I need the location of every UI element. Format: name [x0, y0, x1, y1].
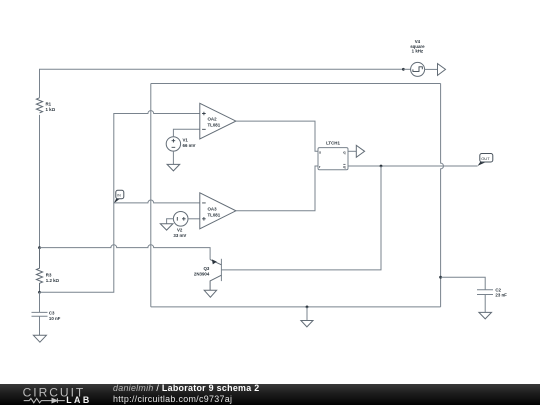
svg-text:OA3: OA3 [208, 207, 218, 212]
ground under V1 [167, 164, 180, 171]
label V2 33 mV [173, 228, 186, 238]
ground below box bottom [301, 321, 313, 327]
svg-text:V1: V1 [183, 137, 189, 142]
voltage source V1 [166, 137, 180, 151]
svg-text:23 nF: 23 nF [495, 293, 507, 298]
svg-text:q: q [343, 150, 346, 154]
voltage source V4 [411, 62, 425, 76]
wire OA2 output to latch S pin [236, 121, 318, 151]
svg-text:1.2 kΩ: 1.2 kΩ [46, 278, 60, 283]
svg-text:66 mV: 66 mV [183, 143, 196, 148]
resistor R3 [36, 248, 42, 293]
transistor Q3 [210, 259, 221, 291]
wire Qbar junction down to Q3 base [221, 166, 381, 270]
wire latch Q to ground stub [348, 150, 356, 152]
svg-text:LAB: LAB [66, 395, 92, 405]
wire V4 left stub [403, 68, 410, 70]
footer text [113, 383, 259, 393]
node A junction [38, 246, 41, 249]
wire OA3 output to latch R pin [236, 166, 318, 211]
resistor R1 [36, 98, 42, 113]
voltage source V2 [173, 212, 188, 227]
label C3 10 nF [49, 310, 61, 320]
wire to C2 [441, 277, 486, 290]
label OA2 TL081 [208, 117, 221, 128]
ground under C3 [33, 335, 46, 342]
ground right of V4 [438, 64, 446, 76]
svg-text:IN: IN [117, 194, 121, 198]
wire node A to Q3 collector (hops at x=113.8 and x=150.8) [40, 245, 211, 260]
svg-text:V2: V2 [177, 228, 183, 233]
op-amp OA2 [200, 103, 236, 139]
wire V2 left to ground [167, 219, 174, 224]
label OA3 TL081 [208, 207, 221, 218]
wire V1 top to OA2 minus input [173, 129, 199, 136]
wire top net V4 [40, 69, 404, 98]
flag IN [114, 190, 124, 203]
svg-text:1 kΩ: 1 kΩ [46, 107, 56, 112]
label V1 66 mV [183, 137, 196, 148]
wire IN riser up to OA2 plus input (hop at x=150.8) [114, 111, 200, 204]
ground under Q3 emitter [204, 290, 216, 297]
CircuitLab logo [0, 384, 110, 405]
label R1 1 kOhm [46, 101, 56, 112]
svg-text:1 kHz: 1 kHz [412, 48, 424, 53]
ground under C2 [479, 312, 492, 319]
svg-text:TL081: TL081 [208, 122, 221, 127]
svg-text:LTCH1: LTCH1 [326, 141, 340, 146]
label Q3 2N3904 [194, 266, 210, 277]
flag OUT [478, 154, 493, 166]
label V4 square 1 kHz [410, 39, 425, 53]
wire box loop (ground frame) [151, 84, 441, 307]
capacitor C3 [32, 292, 48, 335]
wire ground stub box bottom [306, 307, 308, 321]
svg-text:2N3904: 2N3904 [194, 272, 210, 277]
wire V1 bottom to ground [172, 151, 174, 164]
node dot V4 left terminal [402, 68, 405, 71]
wire node B to IN riser [40, 203, 114, 292]
label C2 23 nF [495, 287, 507, 297]
svg-text:33 mV: 33 mV [173, 233, 186, 238]
wire latch Qbar to OUT [348, 165, 478, 167]
ground right of latch [356, 145, 364, 157]
wire R1 bottom to node A [39, 115, 41, 248]
wire IN to OA3 minus input (hop at x=150.8) [114, 200, 200, 203]
node junction Qbar/base [380, 165, 383, 168]
svg-text:r: r [319, 165, 321, 169]
svg-text:C2: C2 [495, 287, 501, 292]
svg-text:R1: R1 [46, 101, 52, 106]
capacitor C2 [477, 290, 493, 313]
svg-text:s: s [319, 150, 321, 154]
svg-text:Q3: Q3 [203, 266, 209, 271]
ground left of V2 [160, 224, 173, 230]
node B junction [38, 291, 41, 294]
op-amp OA3 [200, 193, 236, 229]
svg-text:OA2: OA2 [208, 117, 218, 122]
svg-text:R3: R3 [46, 273, 52, 278]
svg-text:C3: C3 [49, 310, 55, 315]
svg-text:TL081: TL081 [208, 213, 221, 218]
svg-text:OUT: OUT [481, 156, 490, 161]
svg-text:10 nF: 10 nF [49, 316, 61, 321]
wire box right edge with hop over OUT wire [441, 84, 444, 307]
label R3 1.2 kOhm [46, 273, 60, 284]
wire V2 right to OA3 plus input [188, 218, 200, 220]
footer bar [0, 384, 540, 405]
node junction C2 tap [439, 276, 442, 279]
svg-text:q: q [343, 165, 346, 169]
wire V4 right stub [425, 68, 438, 70]
node junction box bottom ground [306, 306, 309, 309]
latch LTCH1 [318, 148, 348, 170]
